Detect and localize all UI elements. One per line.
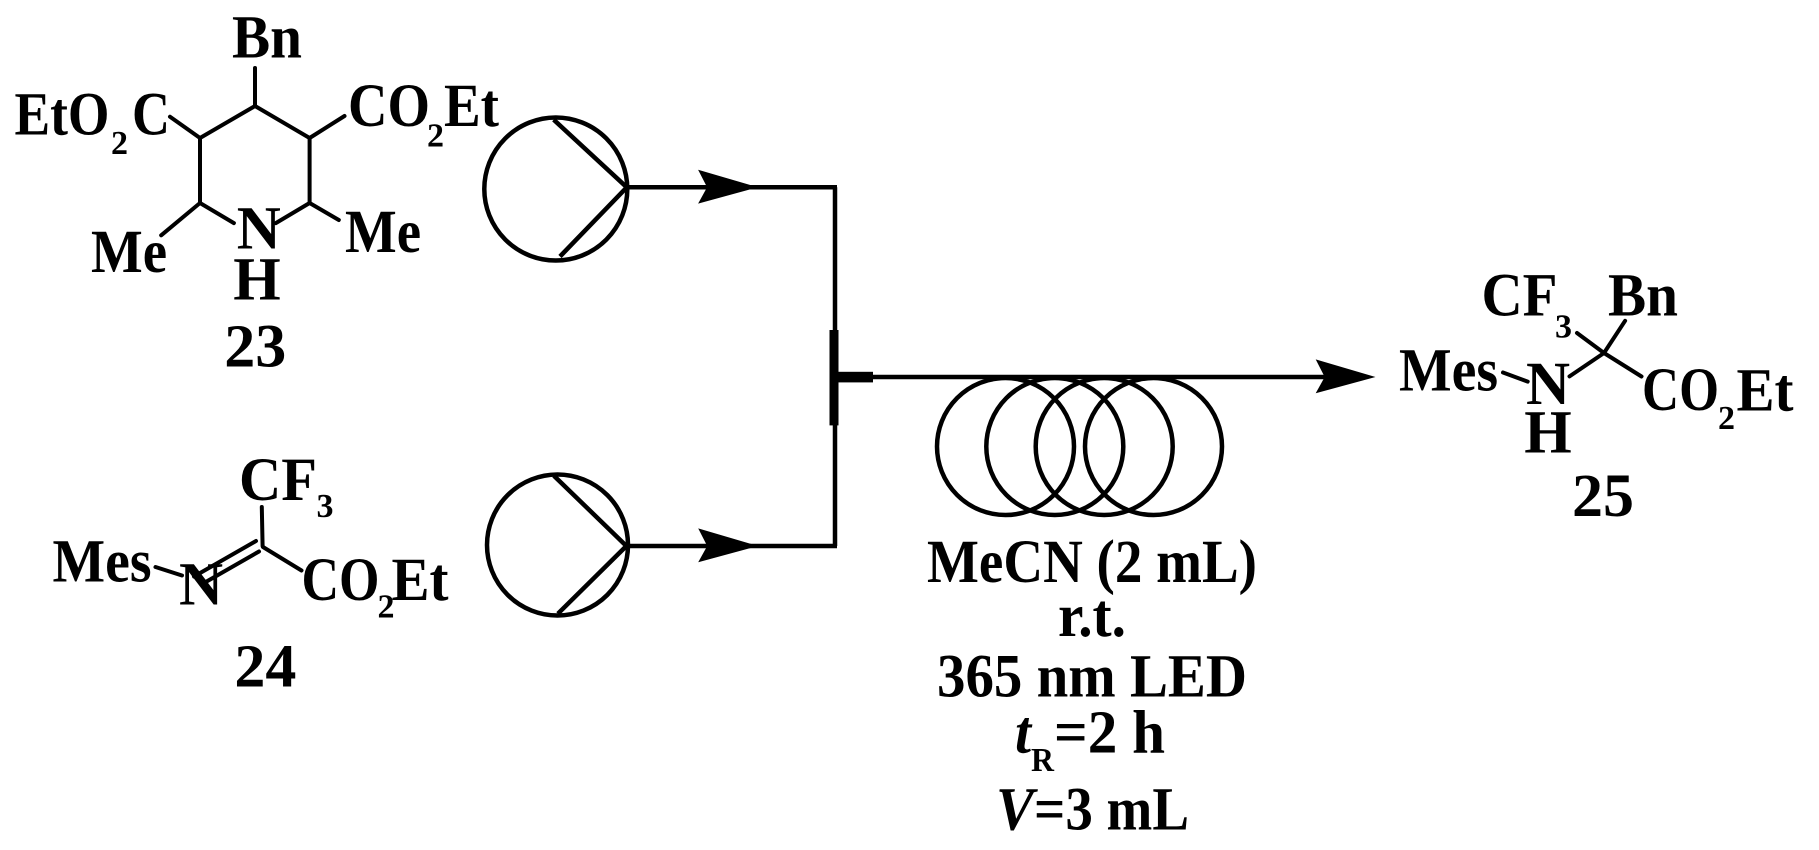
svg-text:CO: CO [1642, 357, 1719, 424]
svg-text:H: H [1524, 400, 1571, 467]
svg-text:2: 2 [427, 118, 444, 155]
svg-text:r.t.: r.t. [1058, 583, 1126, 650]
svg-text:Me: Me [91, 219, 167, 286]
svg-text:N: N [179, 552, 223, 619]
svg-text:2: 2 [111, 125, 128, 162]
svg-text:CO: CO [302, 547, 380, 614]
svg-text:Mes: Mes [1399, 338, 1498, 405]
svg-text:23: 23 [224, 314, 286, 381]
svg-text:V=3 mL: V=3 mL [996, 777, 1189, 844]
svg-text:3: 3 [317, 488, 334, 525]
svg-text:C: C [132, 82, 170, 149]
svg-text:Bn: Bn [232, 5, 302, 72]
svg-text:CF: CF [1482, 263, 1558, 330]
svg-text:Et: Et [444, 73, 500, 140]
svg-text:CO: CO [348, 73, 430, 140]
svg-text:CF: CF [239, 447, 317, 514]
svg-text:H: H [233, 247, 280, 314]
svg-text:2: 2 [1718, 400, 1735, 437]
svg-text:3: 3 [1555, 309, 1572, 346]
svg-text:25: 25 [1572, 463, 1634, 530]
svg-text:Me: Me [345, 199, 421, 266]
svg-text:Et: Et [1737, 358, 1795, 425]
svg-text:Et: Et [392, 547, 450, 614]
svg-text:24: 24 [234, 634, 296, 701]
svg-text:Bn: Bn [1608, 263, 1678, 330]
svg-text:EtO: EtO [15, 82, 110, 149]
svg-text:Mes: Mes [53, 529, 152, 596]
